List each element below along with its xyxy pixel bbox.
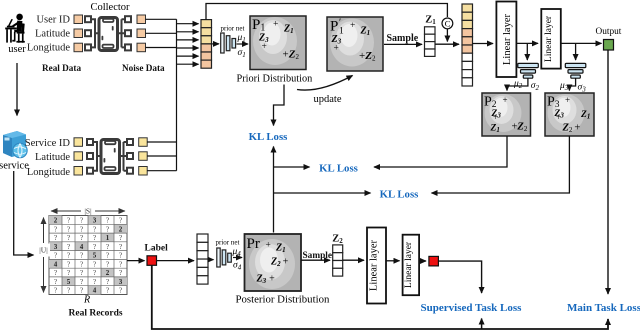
wire branch down to encoder1 (526, 43, 528, 60)
svg-text:Sample: Sample (303, 251, 332, 261)
Pr posterior distribution box (245, 234, 302, 291)
wire Z1 to concat vector (435, 43, 459, 45)
concat vector (462, 4, 473, 86)
svg-text:Longitude: Longitude (27, 43, 70, 54)
svg-text:|S|: |S| (84, 207, 91, 216)
P2 distribution box (482, 93, 531, 136)
wire supervised loss up arrow (481, 319, 483, 330)
svg-text:?: ? (54, 234, 57, 242)
svg-text:?: ? (106, 243, 109, 251)
svg-text:Linear layer: Linear layer (502, 13, 513, 65)
svg-text:Priori Distribution: Priori Distribution (237, 74, 313, 85)
svg-text:+: + (503, 95, 508, 105)
svg-text:?: ? (67, 217, 70, 225)
svg-text:?: ? (80, 252, 83, 260)
svg-text:?: ? (119, 252, 122, 260)
wire Pr to Z2 (301, 259, 330, 261)
collector U2 right bus (119, 142, 128, 171)
wire branch to KL loss 3 (274, 192, 371, 194)
svg-text:4: 4 (93, 287, 97, 295)
svg-text:?: ? (54, 278, 57, 286)
wire encoder2 to P3 (569, 78, 575, 90)
wire branch to KL loss 2 (274, 166, 310, 168)
service noise squares (139, 138, 148, 175)
wire service noise3 to bus (147, 170, 176, 172)
user icon (5, 14, 25, 43)
output node (604, 40, 614, 51)
collector U1 pins right (125, 16, 131, 50)
wire pred node to supervised loss (438, 261, 481, 293)
svg-text:?: ? (119, 260, 122, 268)
wire label to posterior vector (157, 260, 195, 262)
wire linear1 to linear2 (516, 42, 538, 44)
wire service to records (14, 171, 34, 255)
svg-text:3: 3 (119, 278, 123, 286)
noise data squares (137, 15, 146, 52)
P1prime distribution box (327, 17, 383, 71)
svg-text:?: ? (119, 234, 122, 242)
collector U1 body (99, 18, 118, 51)
svg-text:+: + (266, 241, 271, 251)
wire linear4 to pred node (419, 260, 426, 262)
service icon (3, 131, 27, 158)
svg-text:|U|: |U| (39, 246, 47, 255)
svg-text:Z2: Z2 (332, 234, 343, 246)
svg-text:?: ? (80, 269, 83, 277)
svg-text:?: ? (67, 243, 70, 251)
P1 distribution box (250, 16, 306, 70)
svg-text:KL Loss: KL Loss (249, 131, 288, 143)
svg-text:?: ? (106, 260, 109, 268)
svg-text:3: 3 (54, 243, 58, 251)
svg-text:?: ? (54, 269, 57, 277)
svg-text:Pr: Pr (247, 236, 260, 252)
svg-text:service: service (0, 161, 29, 172)
wire stack to prior net 1 (212, 43, 220, 45)
svg-text:?: ? (67, 252, 70, 260)
svg-text:Label: Label (145, 244, 169, 254)
svg-text:?: ? (93, 260, 96, 268)
svg-text:3: 3 (93, 217, 97, 225)
svg-text:?: ? (80, 260, 83, 268)
svg-text:?: ? (106, 252, 109, 260)
collector U2 pins left (87, 139, 93, 174)
wire P2 to KL loss 2 (374, 136, 507, 167)
wire P1prime to Z1 (384, 43, 422, 45)
wire concat to join (446, 29, 448, 42)
wire service noise2 to bus (147, 155, 176, 157)
svg-text:μ1: μ1 (237, 33, 246, 44)
svg-text:User ID: User ID (36, 15, 70, 26)
svg-text:1: 1 (339, 27, 344, 37)
svg-text:σ3: σ3 (578, 83, 587, 94)
collector U1 right bus (117, 19, 126, 47)
svg-text:?: ? (80, 217, 83, 225)
collector U2 left bus (93, 142, 101, 171)
svg-text:4: 4 (80, 243, 84, 251)
svg-text:Sample: Sample (387, 33, 419, 44)
svg-text:?: ? (67, 234, 70, 242)
svg-text:?: ? (106, 278, 109, 286)
svg-text:Output: Output (596, 27, 622, 37)
svg-text:2: 2 (106, 269, 110, 277)
svg-text:+: + (262, 42, 267, 52)
linear layer 2 (541, 9, 561, 69)
svg-text:C: C (445, 19, 451, 29)
wire Z2 to linear3 (343, 259, 364, 261)
posterior input vector (197, 234, 208, 284)
svg-text:2: 2 (54, 217, 58, 225)
svg-text:?: ? (67, 260, 70, 268)
svg-text:prior net: prior net (216, 239, 240, 247)
collector U1 pins left (85, 16, 91, 50)
svg-text:?: ? (67, 225, 70, 233)
wire vector to prior net 4 (208, 259, 214, 261)
wire noise1 to bus (146, 18, 177, 20)
wire output to main task loss (607, 50, 609, 294)
collector U1 left bus (91, 19, 99, 47)
svg-text:σ1: σ1 (238, 48, 246, 59)
svg-text:+: + (273, 20, 278, 30)
svg-text:Service ID: Service ID (25, 138, 71, 149)
linear layer 1 (496, 2, 516, 78)
P3 distribution box (545, 93, 594, 136)
svg-text:?: ? (80, 234, 83, 242)
encoder funnel 1 (518, 63, 539, 78)
records table R (49, 216, 127, 295)
fanout arrows to input vector (177, 24, 199, 64)
wire user to service (16, 63, 18, 116)
wire encoder1 to P2 (507, 78, 528, 90)
concat node (442, 18, 453, 29)
svg-text:KL Loss: KL Loss (319, 163, 358, 175)
S size arrow (51, 210, 125, 212)
svg-text:update: update (314, 94, 342, 105)
svg-text:Supervised Task Loss: Supervised Task Loss (421, 302, 523, 314)
svg-text:4: 4 (54, 260, 58, 268)
svg-text:user: user (8, 44, 26, 55)
svg-text:5: 5 (67, 278, 71, 286)
collector U2 pins right (127, 139, 133, 174)
svg-text:?: ? (93, 278, 96, 286)
svg-text:Longitude: Longitude (27, 167, 70, 178)
svg-text:Collector: Collector (90, 2, 130, 13)
svg-text:Linear layer: Linear layer (404, 241, 414, 288)
svg-text:?: ? (67, 287, 70, 295)
svg-text:μ4: μ4 (232, 247, 242, 258)
svg-text:Main Task Loss: Main Task Loss (567, 302, 640, 314)
encoder funnel 2 (565, 63, 586, 78)
Z1 vector (425, 27, 436, 57)
S size label (81, 206, 95, 215)
linear layer 4 (403, 235, 420, 296)
svg-text:P: P (330, 19, 338, 35)
svg-text:R: R (83, 295, 90, 306)
wire stack top to concat (206, 4, 447, 20)
svg-text:μ2: μ2 (513, 79, 523, 90)
svg-text:5: 5 (93, 252, 97, 260)
svg-text:KL Loss: KL Loss (380, 189, 419, 201)
collector U2 body (101, 140, 120, 174)
wire service noise1 to bus (147, 141, 176, 143)
svg-text:?: ? (80, 278, 83, 286)
svg-text:?: ? (119, 287, 122, 295)
svg-text:+: + (556, 112, 561, 122)
prior net 4 layers (217, 248, 232, 267)
wire linear3 to linear4 (386, 260, 400, 262)
wire concat vector to linear1 (473, 43, 494, 45)
svg-text:Linear layer: Linear layer (369, 239, 380, 291)
U size arrow (43, 218, 45, 293)
svg-text:?: ? (67, 269, 70, 277)
svg-text:μ3: μ3 (559, 81, 569, 92)
svg-text:Latitude: Latitude (35, 152, 70, 163)
bus vertical (176, 19, 178, 170)
prior net 1 layers (221, 33, 236, 53)
svg-text:Z1: Z1 (490, 124, 500, 135)
svg-text:1: 1 (106, 234, 110, 242)
svg-text:?: ? (93, 234, 96, 242)
svg-text:Z1: Z1 (580, 110, 590, 121)
svg-text:Real Records: Real Records (69, 309, 123, 319)
label node (147, 256, 157, 265)
svg-text:Z1: Z1 (425, 15, 436, 27)
svg-text:Latitude: Latitude (35, 29, 70, 40)
wire P1 to KL loss (274, 85, 285, 126)
records grid cells (49, 216, 127, 295)
wire label down to loss line (152, 265, 608, 329)
svg-text:2: 2 (119, 225, 123, 233)
wire noise2 to bus (146, 32, 177, 34)
svg-text:?: ? (54, 252, 57, 260)
svg-text:?: ? (119, 269, 122, 277)
svg-text:Posterior Distribution: Posterior Distribution (236, 294, 330, 306)
svg-text:?: ? (93, 243, 96, 251)
real data squares (74, 15, 83, 52)
svg-text:?: ? (106, 217, 109, 225)
wire records to label (127, 260, 145, 262)
svg-text:?: ? (80, 287, 83, 295)
svg-text:?: ? (54, 225, 57, 233)
svg-text:?: ? (93, 269, 96, 277)
wire posterior to KL loss 1 (273, 147, 275, 233)
wire prior net 1 to P1 (237, 43, 249, 45)
service data squares (74, 138, 83, 175)
svg-text:?: ? (119, 217, 122, 225)
svg-text:Noise Data: Noise Data (122, 63, 165, 73)
svg-text:σ4: σ4 (233, 261, 242, 272)
svg-text:?: ? (80, 225, 83, 233)
wire prior net 4 to Pr (233, 257, 242, 259)
svg-text:?: ? (106, 225, 109, 233)
input vector stack (201, 20, 212, 69)
svg-text:+: + (493, 112, 498, 122)
svg-text:Real Data: Real Data (42, 63, 81, 73)
svg-text:?: ? (54, 287, 57, 295)
svg-text:?: ? (93, 225, 96, 233)
records grid lines (49, 216, 127, 295)
svg-text:?: ? (106, 287, 109, 295)
wire branch down to encoder2 (575, 43, 577, 60)
svg-text:+: + (565, 95, 570, 105)
pred node (429, 256, 439, 266)
wire P3 to KL loss 3 (432, 136, 570, 193)
Z2 vector (333, 245, 343, 276)
svg-text:prior net: prior net (221, 25, 245, 33)
svg-text:+: + (334, 44, 339, 54)
svg-text:Linear layer: Linear layer (544, 15, 554, 62)
wire noise3 to bus (146, 47, 177, 49)
svg-text:σ2: σ2 (531, 81, 540, 92)
update arrow (297, 76, 353, 91)
linear layer 3 (367, 228, 386, 304)
wire linear2 to output (561, 42, 602, 44)
svg-text:+: + (350, 21, 355, 31)
svg-text:?: ? (119, 243, 122, 251)
U size label (37, 244, 50, 257)
